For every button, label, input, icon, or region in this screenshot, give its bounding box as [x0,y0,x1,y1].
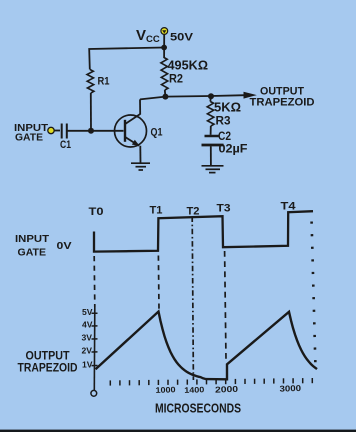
svg-text:TRAPEZOID: TRAPEZOID [18,363,78,375]
svg-text:OUTPUT: OUTPUT [26,351,70,363]
dashed line right of T4 [312,222,316,373]
node R3 top [208,93,214,99]
wire R3 to C2 [210,126,212,135]
svg-text:2000: 2000 [215,384,239,395]
dash-dot line T2 [192,217,193,381]
svg-text:495KΩ: 495KΩ [168,59,209,73]
svg-text:02µF: 02µF [219,142,248,156]
capacitor C1 [62,124,67,139]
resistor R2 [161,58,168,91]
wire top rail to R1 [89,48,164,70]
svg-text:1000: 1000 [155,385,176,395]
svg-text:4V: 4V [82,321,93,330]
svg-text:2V: 2V [82,347,93,356]
output wire collector to arrow [140,95,245,99]
trapezoid waveform [96,312,318,380]
svg-text:3V: 3V [82,334,93,343]
svg-text:0V: 0V [57,240,72,252]
svg-text:T1: T1 [150,205,163,217]
wire C2 to ground [210,146,212,165]
OUTPUT TRAPEZOID labels [18,351,78,375]
transistor Q1 [115,114,147,147]
junction at Vcc rail [161,45,167,51]
Vcc terminal [161,28,168,35]
ground (C2) [202,166,224,173]
svg-text:T3: T3 [217,203,231,215]
input gate waveform [94,211,313,251]
emitter wire [139,146,141,163]
dashed line T3 [225,251,226,360]
origin circle [91,390,97,396]
wire Vcc down to R2 [163,34,165,58]
node below R2 [162,94,168,100]
wire node to R3 [209,96,212,101]
input terminal [48,127,54,133]
svg-text:GATE: GATE [18,247,47,259]
Vcc label [136,27,160,45]
svg-text:50V: 50V [170,32,194,44]
capacitor C2 [202,136,224,145]
svg-text:5V: 5V [82,308,93,317]
wire R2 to output node [164,90,167,97]
dashed line T0 [93,256,96,307]
svg-text:5KΩ: 5KΩ [214,101,241,115]
svg-text:V: V [136,27,146,44]
svg-text:R2: R2 [169,74,183,86]
resistor R3 [207,102,214,127]
dashed line T1 [157,256,160,311]
node: base junction [88,128,94,134]
svg-text:T0: T0 [89,206,104,218]
svg-text:1V: 1V [82,360,93,369]
OUTPUT TRAPEZOID labels [250,86,315,109]
collector wire [139,99,141,114]
svg-text:Q1: Q1 [151,127,163,139]
svg-text:C1: C1 [60,139,71,151]
ground (emitter) [131,163,150,170]
svg-text:3000: 3000 [279,383,301,394]
svg-text:T4: T4 [281,201,297,213]
svg-text:R3: R3 [216,114,231,128]
svg-text:GATE: GATE [15,132,43,144]
wire R1 to base node [90,93,92,131]
svg-text:TRAPEZOID: TRAPEZOID [250,97,315,109]
INPUT GATE labels [15,233,50,259]
svg-text:CC: CC [146,34,160,45]
svg-text:R1: R1 [98,76,110,88]
wire C1 to base [67,130,124,132]
svg-text:1400: 1400 [184,385,205,395]
output arrow [244,92,257,99]
INPUT GATE labels [14,122,49,144]
svg-text:T2: T2 [187,206,200,218]
x-axis ticks [110,378,312,386]
wire terminal to C1 [54,130,60,132]
bottom black strip [0,430,356,432]
svg-text:INPUT: INPUT [15,233,50,245]
svg-text:MICROSECONDS: MICROSECONDS [155,402,241,416]
y-axis [93,307,96,391]
y ticks [92,313,98,365]
resistor R1 [87,70,94,94]
